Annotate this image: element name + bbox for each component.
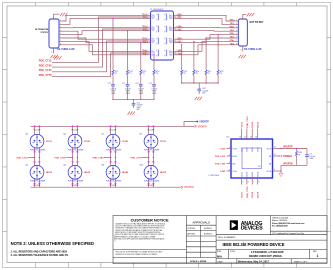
U2 pin 1 [227, 148, 232, 150]
wire [140, 76, 142, 85]
svg-text:B2G12: B2G12 [241, 172, 243, 177]
connector J2 (output to PHY) [238, 19, 247, 46]
svg-text:POE_CT12: POE_CT12 [16, 158, 28, 160]
svg-text:CUSTOMER NOTICE: CUSTOMER NOTICE [131, 217, 169, 222]
svg-text:IEEE 802.3bt POWERED DEVICE: IEEE 802.3bt POWERED DEVICE [223, 242, 285, 247]
svg-text:OUTP: OUTP [266, 148, 272, 150]
wire J1 to T1 [62, 38, 148, 43]
svg-text:TCT3: TCT3 [151, 41, 155, 43]
wire VPORTP top bus [31, 122, 197, 127]
svg-text:MD1-2E2F: MD1-2E2F [72, 130, 79, 132]
svg-text:POE_CT12: POE_CT12 [39, 60, 52, 63]
svg-text:8: 8 [176, 54, 177, 56]
J2 wire net labels [230, 20, 235, 46]
wire T1 to J2 [177, 15, 236, 21]
svg-text:TD1-: TD1- [151, 18, 155, 20]
wire T1 to J2 [177, 38, 236, 43]
svg-text:8: 8 [259, 181, 260, 183]
svg-text:POE_CT45: POE_CT45 [92, 157, 104, 160]
svg-text:1: 1 [236, 20, 237, 22]
svg-text:#BG45: #BG45 [122, 171, 129, 174]
svg-text:POE_CT45: POE_CT45 [215, 162, 226, 165]
net label VPORTN (red) [181, 186, 183, 188]
mid junction wires [149, 153, 154, 161]
svg-text:RD1+: RD1+ [169, 15, 173, 17]
U2 top pin 13 [257, 129, 259, 140]
svg-text:DATE:: DATE: [218, 260, 224, 263]
wire to ground [280, 165, 282, 173]
T1 winding symbols [156, 14, 167, 56]
U2 pin 2 [227, 155, 232, 157]
top pads and stubs [148, 125, 150, 127]
bottom stubs row1 [149, 148, 154, 151]
U2 bottom pin 8 [257, 178, 259, 185]
T1 wire net labels (right) [178, 14, 184, 56]
svg-text:8: 8 [60, 43, 61, 45]
J2 shield wire to chassis [243, 14, 247, 19]
wire [205, 76, 207, 84]
svg-text:6: 6 [60, 37, 61, 39]
svg-text:MD1-2E2F: MD1-2E2F [148, 130, 155, 132]
bottom stubs row1 [111, 148, 116, 151]
svg-text:1. ALL RESISTORS AND CAPACITOR: 1. ALL RESISTORS AND CAPACITORS ARE 0603 [11, 250, 68, 253]
wire T1 to J2 [177, 41, 236, 51]
svg-text:SCALE = NONE: SCALE = NONE [190, 260, 207, 263]
svg-text:T1 74902G019: T1 74902G019 [150, 9, 164, 11]
svg-text:MD1-2E2F: MD1-2E2F [34, 185, 41, 187]
svg-text:75: 75 [220, 73, 222, 75]
wire T1 center tap to POE_CT net [52, 17, 148, 62]
svg-text:PDMB075-100MSE: PDMB075-100MSE [30, 149, 46, 151]
svg-text:IC NO.: IC NO. [230, 251, 236, 253]
svg-text:#BG78: #BG78 [160, 172, 167, 174]
svg-text:3: 3 [60, 26, 61, 28]
svg-text:75: 75 [129, 73, 131, 75]
svg-text:1: 1 [317, 254, 319, 258]
svg-text:75: 75 [208, 73, 210, 75]
svg-text:16: 16 [239, 136, 241, 138]
svg-text:POE_CT45: POE_CT45 [39, 69, 52, 72]
svg-text:NOTE 2: UNLESS OTHERWISE SPECI: NOTE 2: UNLESS OTHERWISE SPECIFIED [11, 241, 94, 246]
svg-text:TG36: TG36 [232, 148, 236, 150]
svg-text:NG78: NG78 [252, 191, 254, 197]
wire drop to R75 [181, 45, 183, 70]
J2 bottom shield stub [242, 46, 244, 52]
resistor R72 [126, 70, 128, 75]
svg-text:VPORTP: VPORTP [199, 122, 209, 124]
T1 pin stubs left [148, 15, 151, 55]
svg-text:RD2+: RD2+ [169, 27, 173, 29]
ground symbol (VPORTN) [279, 173, 283, 176]
capacitor C61 [133, 99, 135, 103]
svg-text:75: 75 [156, 73, 158, 75]
net label POE_CT12 [28, 157, 35, 159]
wire J1 to T1 [62, 19, 148, 25]
svg-text:C74: C74 [148, 83, 151, 85]
svg-text:TCT4: TCT4 [151, 53, 155, 55]
wire VPORTN rail [281, 164, 307, 166]
svg-text:5: 5 [242, 181, 243, 183]
svg-text:12: 12 [274, 147, 276, 149]
svg-text:N/A: N/A [217, 254, 223, 258]
J2 pin numbers [236, 20, 237, 46]
svg-text:T2G36: T2G36 [247, 147, 249, 152]
svg-text:VPORTP: VPORTP [198, 126, 208, 128]
U2 pin 11 stub [273, 155, 280, 157]
net label POE_CT78 [142, 157, 149, 159]
svg-text:4: 4 [60, 30, 61, 32]
svg-text:2: 2 [60, 23, 61, 25]
svg-text:TD3+: TD3+ [151, 39, 155, 41]
svg-text:7: 7 [236, 40, 237, 42]
svg-text:B2G78: B2G78 [257, 172, 259, 177]
wire [153, 76, 155, 85]
chassis ground (J2 bottom) [239, 55, 246, 58]
wire VPORTP rail [277, 148, 307, 150]
chassis ground (J1 bottom) [51, 55, 58, 58]
svg-text:APP ENG.: APP ENG. [188, 233, 196, 236]
T1 wire net labels (left) [142, 14, 148, 56]
transformer T1 [151, 11, 174, 60]
svg-text:2: 2 [176, 17, 177, 19]
svg-text:2k: 2k [298, 154, 300, 156]
U2 bottom pin 5 [241, 178, 243, 185]
svg-text:5: 5 [176, 38, 177, 40]
wire drop to R72 [127, 31, 129, 70]
svg-text:9: 9 [51, 52, 52, 54]
resistor R73 [140, 70, 142, 75]
svg-text:7: 7 [176, 50, 177, 52]
wire [140, 86, 142, 99]
T1 pin stubs right [174, 15, 177, 55]
svg-text:#TG36: #TG36 [84, 141, 91, 143]
svg-text:SHEET 2 OF 2: SHEET 2 OF 2 [294, 261, 308, 263]
diode bridge Q10 [144, 165, 158, 179]
svg-text:1: 1 [60, 20, 61, 22]
wire drop to R77 [205, 38, 207, 70]
svg-text:#TG45: #TG45 [122, 140, 129, 143]
svg-text:HUONG N.: HUONG N. [204, 233, 213, 235]
wire drop to R71 [112, 19, 114, 70]
connector J1 (RJ45 input) [35, 19, 59, 48]
diode bridge Q4 [30, 165, 44, 179]
resistor R75 [181, 70, 183, 75]
svg-text:T2G45: T2G45 [252, 147, 254, 152]
wire [127, 86, 129, 99]
svg-text:VPORTP: VPORTP [283, 147, 293, 149]
svg-text:TITLE: SCHEMATIC: TITLE: SCHEMATIC [218, 236, 237, 239]
svg-text:TG45: TG45 [232, 171, 236, 173]
top pads and stubs [72, 125, 74, 127]
resistor R76 [193, 70, 195, 75]
svg-text:#BG12: #BG12 [46, 172, 53, 174]
svg-text:TCT2: TCT2 [151, 29, 155, 31]
svg-text:4: 4 [229, 169, 230, 171]
svg-text:TG45: TG45 [220, 170, 226, 173]
svg-text:8: 8 [236, 43, 237, 45]
U2 top pin 15 [246, 129, 248, 140]
top pads and stubs [110, 125, 112, 127]
svg-text:75: 75 [184, 73, 186, 75]
mid junction wires [35, 153, 40, 161]
svg-text:TD2+: TD2+ [151, 27, 155, 29]
diode bridge Q6 [68, 165, 82, 179]
svg-text:RD4+: RD4+ [169, 51, 173, 53]
J1 pin stubs [59, 21, 62, 45]
wire join line (R75-R78 commons) [182, 82, 218, 84]
svg-text:RCT2: RCT2 [169, 29, 173, 31]
wire [112, 86, 114, 99]
svg-text:B2G45: B2G45 [252, 172, 254, 177]
capacitor C73 [139, 84, 143, 86]
diode bridge Q3 [30, 134, 44, 148]
svg-text:T2G12: T2G12 [241, 147, 243, 152]
svg-text:75: 75 [196, 73, 198, 75]
Analog Devices logo [230, 220, 238, 230]
wire T1 center tap to POE_CT net [52, 53, 148, 77]
svg-text:LT4321IUF: LT4321IUF [209, 175, 220, 177]
wire T1 to J2 [177, 30, 236, 33]
svg-text:PDMB075-100MSE: PDMB075-100MSE [106, 181, 122, 183]
svg-text:OUT TO PHY: OUT TO PHY [250, 22, 264, 24]
svg-text:MD1-2E2F: MD1-2E2F [72, 185, 79, 187]
port VPORTP (blue) [196, 121, 198, 123]
svg-text:TG78: TG78 [242, 192, 244, 198]
J2 pin stubs [235, 21, 238, 45]
resistor R98 [296, 149, 298, 152]
svg-text:#TG78: #TG78 [160, 141, 167, 143]
svg-text:MD1-2E2F: MD1-2E2F [34, 130, 41, 132]
svg-text:3: 3 [229, 162, 230, 164]
net label POE_CT36 [66, 157, 73, 159]
resistor R74 [153, 70, 155, 75]
wire T1 to J2 [177, 45, 236, 55]
svg-text:PCB DES.: PCB DES. [188, 228, 196, 230]
svg-text:2. ALL RESISTORS TOLERANCE RAT: 2. ALL RESISTORS TOLERANCE RATING ARE 5% [11, 254, 69, 257]
capacitor C9 [306, 149, 308, 155]
capacitor C62 [198, 83, 200, 89]
svg-text:PDMB075-100MSE: PDMB075-100MSE [30, 181, 46, 183]
svg-text:OUTN: OUTN [266, 171, 272, 173]
svg-text:1630 McCarthy Blvd.: 1630 McCarthy Blvd. [272, 217, 289, 220]
svg-text:LTC Confidential For Customer: LTC Confidential For Customer Use Only [272, 232, 304, 235]
bottom stubs row2 [149, 179, 154, 183]
T1 inner pin names [151, 15, 173, 57]
svg-text:RD2-: RD2- [169, 30, 173, 32]
svg-text:1: 1 [176, 14, 177, 16]
resistor R71 [112, 70, 114, 75]
svg-text:7: 7 [253, 181, 254, 183]
chassis ground (C61) [128, 112, 135, 115]
mid junction wires [73, 153, 78, 161]
diode bridge Q8 [106, 165, 120, 179]
U2 top pin 14 [251, 129, 253, 140]
wire T1 center tap to POE_CT net [52, 41, 148, 72]
svg-text:14: 14 [250, 136, 252, 138]
wire J1 to T1 [62, 31, 148, 35]
bottom stubs row2 [73, 179, 78, 183]
svg-text:PDMB075-100MSE: PDMB075-100MSE [144, 149, 160, 151]
J1 bottom shield stub [53, 48, 55, 54]
wire [217, 76, 219, 84]
net label PWRGD [281, 155, 283, 157]
capacitor C74 [152, 84, 156, 86]
svg-text:13: 13 [255, 136, 257, 138]
svg-text:VPORTN: VPORTN [184, 187, 194, 189]
capacitor C71 [111, 84, 115, 86]
svg-text:75: 75 [115, 73, 117, 75]
svg-text:5: 5 [60, 33, 61, 35]
capacitor C72 [126, 84, 130, 86]
svg-text:#BG36: #BG36 [84, 172, 91, 174]
svg-text:TD3-: TD3- [151, 42, 155, 44]
svg-text:15: 15 [245, 136, 247, 138]
diode bridge Q5 [68, 134, 82, 148]
svg-text:RD4-: RD4- [169, 54, 173, 56]
wire T1 to J2 [177, 35, 236, 40]
svg-text:5: 5 [236, 33, 237, 35]
svg-text:VPORTN: VPORTN [283, 164, 293, 166]
svg-text:BG78: BG78 [258, 191, 260, 197]
svg-text:4: 4 [176, 29, 177, 31]
wire J1 to T1 [62, 15, 148, 21]
resistor R78 [217, 70, 219, 75]
wire J1 to T1 [62, 31, 148, 39]
chassis ground (above POE_CT labels) [54, 56, 61, 59]
wire J1 to T1 [62, 26, 148, 29]
svg-text:TD1+: TD1+ [151, 15, 155, 17]
op IC U2 LT4321IUF [231, 139, 273, 178]
U2 exposed pad [242, 148, 262, 169]
svg-text:RD1-: RD1- [169, 18, 173, 20]
chassis ground (J2 top) [247, 13, 254, 16]
svg-text:T2G78: T2G78 [257, 147, 259, 152]
svg-text:APPROVALS: APPROVALS [193, 220, 210, 224]
wire T1 to J2 [177, 19, 236, 25]
svg-text:NG12: NG12 [252, 121, 254, 127]
U2 bottom pin 6 [246, 178, 248, 185]
svg-text:R45: R45 [232, 163, 235, 165]
resistor R77 [205, 70, 207, 75]
diode bridge Q7 [106, 134, 120, 148]
svg-text:POE_CT36: POE_CT36 [54, 158, 66, 160]
svg-text:POE_CT78: POE_CT78 [39, 74, 52, 77]
wire VPORTN bottom bus [31, 186, 182, 188]
net label POE_CT45 [104, 157, 111, 159]
svg-text:PDMB075-100MSE: PDMB075-100MSE [106, 149, 122, 151]
top pads and stubs [34, 125, 36, 127]
wire T1 to J2 [177, 26, 236, 29]
svg-text:2: 2 [236, 23, 237, 25]
wire J1 to T1 [62, 45, 148, 55]
wire [112, 76, 114, 85]
J1 pin numbers [60, 20, 61, 46]
svg-text:HUONG N.: HUONG N. [204, 228, 213, 230]
svg-text:B2G36: B2G36 [247, 172, 249, 177]
svg-text:RD3+: RD3+ [169, 39, 173, 41]
svg-text:4: 4 [236, 30, 237, 32]
svg-text:C72: C72 [122, 83, 125, 85]
svg-text:SS-7188S-A-NF: SS-7188S-A-NF [57, 48, 75, 51]
svg-text:Milpitas, CA 95035: Milpitas, CA 95035 [272, 219, 287, 222]
chassis ground (J1 top) [60, 13, 67, 16]
svg-text:75: 75 [143, 73, 145, 75]
svg-text:3: 3 [176, 26, 177, 28]
svg-text:Wednesday, May 24, 2017: Wednesday, May 24, 2017 [238, 259, 269, 263]
svg-text:POE_CT12: POE_CT12 [247, 116, 249, 128]
chassis ground (C62) [195, 97, 202, 100]
svg-text:MD1-2E2F: MD1-2E2F [148, 185, 155, 187]
svg-text:POE_CT36: POE_CT36 [39, 64, 52, 67]
svg-text:6: 6 [248, 181, 249, 183]
svg-text:6: 6 [176, 41, 177, 43]
diode bridge Q9 [144, 134, 158, 148]
svg-text:TG12: TG12 [242, 121, 244, 127]
svg-text:SS-7188S-A-NF: SS-7188S-A-NF [244, 48, 262, 51]
U2 pin 4 [227, 170, 232, 172]
svg-text:POE_CT78: POE_CT78 [247, 186, 249, 198]
svg-text:9: 9 [274, 169, 275, 171]
wire join line (C71-C74 commons) [113, 98, 154, 100]
wire drop to R76 [193, 41, 195, 70]
wire [153, 86, 155, 99]
svg-text:1: 1 [229, 147, 230, 149]
svg-text:PDMB075-100MSE: PDMB075-100MSE [68, 149, 84, 151]
wire [127, 76, 129, 85]
svg-text:RCT4: RCT4 [169, 53, 173, 55]
svg-text:TG26: TG26 [220, 148, 226, 150]
wire drop to R73 [140, 43, 142, 70]
J1 shield wire to chassis [54, 14, 60, 19]
wire [181, 76, 183, 84]
wire T1 center tap to POE_CT net [52, 29, 148, 67]
wire [193, 76, 195, 84]
svg-text:POE_CT78: POE_CT78 [130, 158, 142, 160]
svg-text:11: 11 [274, 154, 276, 156]
U2 pin 9 stub [273, 170, 282, 172]
svg-text:DEMO CIRCUIT 2583A: DEMO CIRCUIT 2583A [249, 254, 282, 258]
wire J1 to T1 [62, 41, 148, 51]
T1 pin numbers [147, 14, 177, 56]
svg-text:MD1-2E2F: MD1-2E2F [110, 130, 117, 132]
svg-text:#TG12: #TG12 [46, 141, 53, 143]
bottom stubs row2 [35, 179, 40, 183]
svg-text:BG12: BG12 [258, 121, 260, 127]
mid junction wires [111, 153, 116, 161]
U2 bottom pin 7 [251, 178, 253, 185]
svg-text:9: 9 [241, 50, 242, 52]
bottom stubs row2 [111, 179, 116, 183]
svg-text:RCT3: RCT3 [169, 41, 173, 43]
svg-text:PDMB075-100MSE: PDMB075-100MSE [68, 181, 84, 183]
svg-text:C73: C73 [135, 83, 138, 85]
U2 pin 3 [227, 163, 232, 165]
wire drop to R78 [217, 35, 219, 70]
U2 pin 12 stub [273, 148, 278, 150]
svg-text:Fax: (408)434-0507: Fax: (408)434-0507 [272, 224, 288, 227]
svg-text:57V/57V: 57V/57V [41, 32, 49, 34]
svg-text:Phone: (408)432-1900 www.line: Phone: (408)432-1900 www.linear.com [272, 222, 305, 225]
wire drop to R74 [153, 55, 155, 70]
svg-text:RD3-: RD3- [169, 42, 173, 44]
svg-text:NG36: NG36 [232, 156, 237, 158]
svg-text:6: 6 [236, 37, 237, 39]
svg-text:PDMB075-100MSE: PDMB075-100MSE [144, 181, 160, 183]
bottom stubs row1 [35, 148, 40, 151]
bottom stubs row1 [73, 148, 78, 151]
svg-text:TD4+: TD4+ [151, 51, 155, 53]
svg-text:TD2-: TD2- [151, 30, 155, 32]
